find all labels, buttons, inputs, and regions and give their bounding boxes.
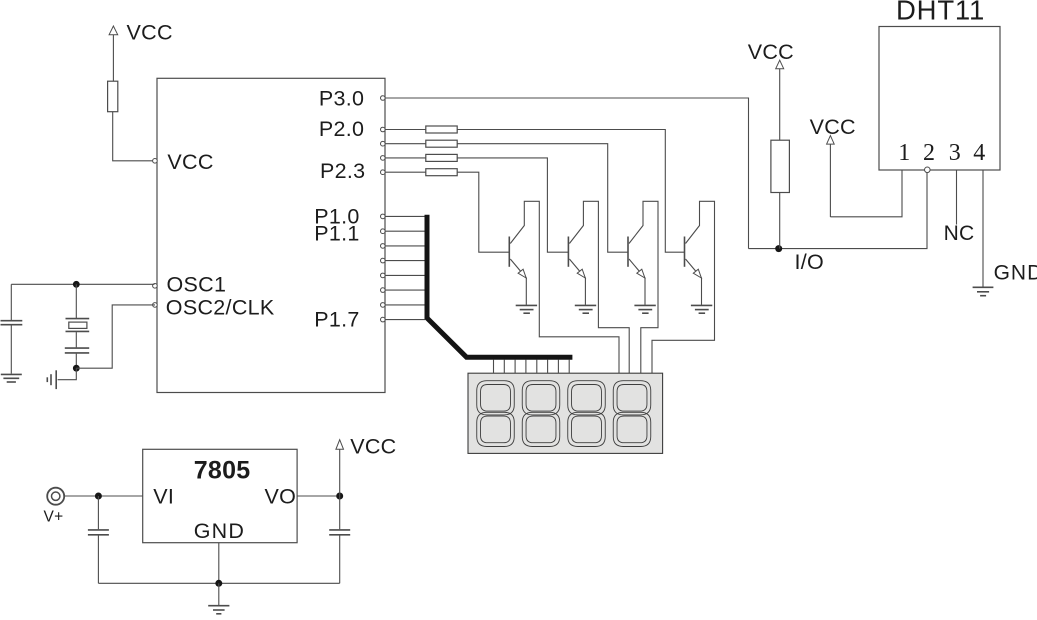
wire pin4 to ground	[982, 170, 984, 287]
ground (Q2 emitter)	[575, 305, 596, 313]
svg-text:P1.1: P1.1	[314, 222, 359, 246]
wire pin3 NC stub	[956, 170, 958, 225]
wire R3 to transistor base	[457, 144, 628, 253]
power VCC (pull-up)	[748, 40, 794, 140]
wire R5 to transistor base	[457, 172, 509, 252]
regulator U2 7805	[143, 449, 297, 542]
wire R1 to VCC pin	[113, 112, 155, 161]
svg-text:2: 2	[923, 140, 935, 166]
pin OSC1	[153, 272, 227, 296]
wire P1.6 to bus	[385, 304, 425, 306]
sensor DHT11	[879, 27, 1000, 171]
op-amp U1 microcontroller box	[157, 78, 385, 392]
wire P2 pin to R5	[385, 171, 426, 173]
svg-text:P2.0: P2.0	[319, 117, 364, 141]
svg-text:VI: VI	[153, 484, 174, 508]
ground (Q1 emitter)	[516, 305, 537, 313]
svg-text:VCC: VCC	[127, 21, 173, 45]
power VCC (DHT pin1)	[810, 115, 856, 217]
capacitor C2	[65, 348, 89, 368]
wire segment pin 2	[503, 360, 505, 373]
wire P1.3 to bus	[385, 260, 425, 262]
wire P2 pin to R2	[385, 129, 426, 131]
svg-text:VCC: VCC	[350, 434, 396, 458]
wire P2 pin to R4	[385, 157, 426, 159]
svg-text:4: 4	[973, 140, 985, 166]
crystal Y1	[66, 284, 90, 347]
capacitor C3	[88, 496, 109, 583]
svg-text:I/O: I/O	[795, 250, 825, 274]
svg-text:3: 3	[949, 140, 961, 166]
wire to ground symbol	[218, 583, 220, 605]
pin 2 circle	[925, 167, 931, 173]
node VO junction	[336, 493, 343, 500]
node I/O junction	[775, 245, 824, 274]
wire display data bus (thick)	[427, 215, 572, 357]
wire P1.5 to bus	[385, 289, 425, 291]
7-segment display DS1	[468, 373, 663, 453]
svg-text:VCC: VCC	[167, 150, 213, 174]
svg-text:VCC: VCC	[810, 115, 856, 139]
wire segment pin 8	[568, 360, 570, 373]
svg-text:DHT11: DHT11	[896, 0, 985, 26]
wire segment pin 5	[536, 360, 538, 373]
wire DHT pin2 data	[749, 172, 928, 248]
pin P1.5	[381, 288, 386, 293]
node OSC2 junction	[73, 365, 80, 372]
ground (C1)	[1, 374, 22, 382]
transistor Q1	[509, 201, 619, 373]
svg-text:1: 1	[898, 140, 910, 166]
wire ground rail	[98, 582, 339, 584]
svg-text:V+: V+	[44, 509, 64, 526]
pin P2.2	[381, 156, 386, 161]
resistor R2	[426, 126, 457, 133]
wire OSC2 net	[76, 305, 155, 368]
resistor R5	[426, 169, 457, 176]
capacitor C1	[1, 284, 23, 373]
transistor Q4	[652, 201, 715, 373]
wire R4 to transistor base	[457, 158, 568, 252]
wire segment pin 7	[557, 360, 559, 373]
pin VCC	[153, 150, 214, 174]
capacitor C4	[329, 496, 350, 583]
wire P1.4 to bus	[385, 274, 425, 276]
digit 3	[568, 381, 606, 447]
pin P2.3	[320, 159, 385, 183]
digit 1	[477, 381, 515, 447]
resistor R6 pull-up	[771, 140, 790, 192]
wire OSC1 net	[11, 283, 154, 285]
resistor R3	[426, 140, 457, 147]
svg-text:P1.7: P1.7	[314, 308, 359, 332]
wire DHT pin1 to VCC	[830, 170, 902, 217]
wire segment pin 3	[514, 360, 516, 373]
wire P1.2 to bus	[385, 245, 425, 247]
pin P2.1	[381, 141, 386, 146]
wire segment pin 6	[547, 360, 549, 373]
ground (Q4 emitter)	[691, 305, 712, 313]
pin P3.0	[319, 87, 385, 111]
resistor R4	[426, 154, 457, 161]
transistor Q3	[628, 201, 658, 373]
svg-text:7805: 7805	[194, 457, 251, 485]
power VCC (7805 output)	[336, 434, 397, 496]
digit 2	[522, 381, 560, 447]
wire R6 to I/O	[779, 193, 781, 249]
digit 4	[613, 381, 651, 447]
pin P1.6	[381, 303, 386, 308]
wire P1.7 to bus	[385, 319, 425, 321]
wire VO to VCC	[297, 495, 340, 497]
ground (7805)	[208, 606, 229, 614]
pin P2.0	[319, 117, 385, 141]
ground (DHT pin4)	[973, 287, 994, 295]
wire P1.0 to bus	[385, 215, 425, 217]
ground (crystal, left-pointing)	[47, 370, 56, 389]
wire R2 to transistor base	[457, 130, 684, 253]
pin P1.2	[381, 244, 386, 249]
svg-text:NC: NC	[944, 222, 975, 245]
svg-text:P3.0: P3.0	[319, 87, 364, 111]
node ground junction	[215, 580, 222, 587]
svg-text:OSC2/CLK: OSC2/CLK	[166, 295, 275, 319]
pin P1.7	[314, 308, 385, 332]
wire junction to ground	[58, 368, 77, 380]
pin OSC2/CLK	[153, 295, 275, 319]
wire P1.1 to bus	[385, 230, 425, 232]
wire J1 to VI	[64, 495, 143, 497]
wire segment pin 1	[493, 360, 495, 373]
svg-text:VO: VO	[265, 484, 297, 508]
transistor Q2	[568, 201, 629, 373]
node VI junction	[95, 493, 102, 500]
pin P1.4	[381, 273, 386, 278]
svg-text:P2.3: P2.3	[320, 159, 365, 183]
power VCC (top-left)	[109, 21, 173, 82]
resistor R1	[108, 81, 118, 112]
pin P1.0	[314, 205, 385, 229]
wire P2 pin to R3	[385, 143, 426, 145]
svg-text:VCC: VCC	[748, 40, 794, 64]
pin P1.3	[381, 258, 386, 263]
svg-text:GND: GND	[994, 262, 1037, 285]
wire P3.0 to DHT data	[385, 98, 749, 249]
connector J1 V+	[44, 488, 65, 526]
ground (Q3 emitter)	[634, 305, 655, 313]
pin P1.1	[314, 222, 385, 246]
svg-text:OSC1: OSC1	[167, 272, 227, 296]
wire segment pin 4	[525, 360, 527, 373]
svg-text:GND: GND	[194, 519, 245, 543]
wire GND pin	[218, 543, 220, 584]
node OSC1 junction	[73, 281, 80, 288]
